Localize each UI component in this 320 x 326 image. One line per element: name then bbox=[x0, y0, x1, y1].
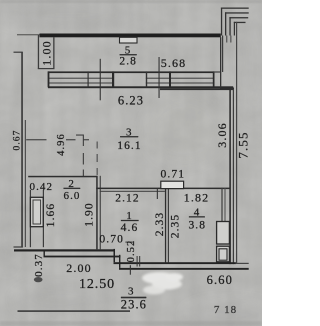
top exterior thick wall bbox=[40, 34, 221, 38]
bottom band A bottom line bbox=[44, 256, 121, 258]
svg-text:6.23: 6.23 bbox=[118, 94, 144, 108]
svg-text:0.70: 0.70 bbox=[99, 234, 124, 246]
duct box 2 bbox=[217, 246, 230, 262]
svg-text:0.37: 0.37 bbox=[33, 253, 45, 277]
room1 underline bbox=[121, 220, 139, 221]
svg-text:3.8: 3.8 bbox=[188, 220, 206, 232]
svg-text:12.50: 12.50 bbox=[79, 277, 115, 292]
window mullion 4 bbox=[169, 71, 171, 87]
window band bottom line bbox=[48, 86, 233, 88]
dim tick under room1 top wall bbox=[157, 189, 158, 199]
window mullion 1 bbox=[88, 71, 89, 87]
window mullion 3 bbox=[146, 71, 147, 87]
dim line 4.96 seg2 bbox=[66, 139, 76, 140]
room1 top wall line 2 bbox=[100, 191, 165, 192]
svg-text:1.00: 1.00 bbox=[40, 40, 54, 65]
left wall inner line bbox=[25, 120, 26, 247]
duct box 2 inner bbox=[219, 249, 227, 260]
svg-text:3: 3 bbox=[128, 285, 135, 297]
balcony top thin line bbox=[17, 34, 41, 35]
balcony right top line bbox=[213, 71, 221, 72]
svg-text:0.42: 0.42 bbox=[29, 181, 53, 193]
room4 underline bbox=[189, 216, 205, 217]
svg-text:2.00: 2.00 bbox=[66, 261, 91, 275]
balcony right corner vertical bbox=[220, 37, 221, 87]
svg-text:7.55: 7.55 bbox=[235, 131, 250, 158]
svg-text:2.8: 2.8 bbox=[119, 56, 137, 68]
room2 underline bbox=[64, 188, 81, 189]
svg-text:2.35: 2.35 bbox=[169, 214, 181, 239]
room2 left window frame verticals bbox=[30, 190, 31, 247]
dim tick 6.23 left bbox=[100, 59, 101, 101]
dim tick 5.68 left bbox=[159, 57, 160, 98]
svg-text:1.82: 1.82 bbox=[184, 191, 209, 205]
dim tick 0.52 top bbox=[125, 242, 132, 243]
svg-text:2.33: 2.33 bbox=[154, 212, 166, 237]
svg-text:23.6: 23.6 bbox=[121, 298, 147, 312]
svg-text:16.1: 16.1 bbox=[117, 140, 142, 152]
left wall outer line bbox=[21, 52, 23, 247]
svg-text:2.12: 2.12 bbox=[115, 193, 140, 205]
room2 window outer rect bbox=[30, 197, 43, 226]
room4 right inner wall a bbox=[221, 188, 222, 223]
shaft inner vertical a bbox=[222, 36, 223, 73]
balcony window band top line bbox=[48, 71, 214, 73]
svg-text:5.68: 5.68 bbox=[161, 56, 186, 70]
bottom band B bottom line bbox=[119, 268, 249, 270]
dashed vertical x97 dash1 bbox=[97, 142, 98, 149]
room2 window inner rect bbox=[33, 200, 41, 224]
shaft inner vertical b bbox=[226, 36, 227, 43]
room2 top wall bbox=[28, 176, 97, 178]
room5 underline bbox=[120, 54, 137, 55]
outer boundary right vertical bbox=[236, 22, 237, 264]
balcony left vertical 2 bbox=[53, 37, 54, 68]
dim tick 2.00 end bbox=[130, 265, 131, 275]
svg-text:4.96: 4.96 bbox=[56, 133, 67, 156]
rooms1-4 divider outer bbox=[165, 188, 166, 263]
room1 top wall line 1 bbox=[96, 188, 230, 190]
dim line 4.96 seg1 bbox=[26, 139, 46, 140]
window band right bottom thickening bbox=[160, 88, 234, 90]
dashed corner horiz bbox=[76, 135, 84, 136]
bottom band A top line bbox=[14, 249, 115, 251]
window band left end bbox=[48, 71, 50, 87]
svg-text:1.90: 1.90 bbox=[83, 202, 95, 227]
window mullion 2 thick bbox=[112, 71, 114, 87]
dashed vertical x83 dash1 bbox=[83, 135, 84, 147]
bottom band B top line bbox=[114, 262, 236, 264]
dim tick at 149 bbox=[137, 256, 138, 267]
svg-text:0.67: 0.67 bbox=[13, 129, 23, 150]
window band mid line 2 (right part) bbox=[146, 83, 214, 84]
stair steps: L2 bbox=[225, 12, 249, 13]
svg-text:6.0: 6.0 bbox=[63, 190, 80, 202]
stair steps top right: L1 bbox=[221, 8, 249, 9]
svg-text:4.6: 4.6 bbox=[121, 222, 139, 234]
balcony left vertical 1 bbox=[38, 35, 39, 69]
stair steps: L3 bbox=[229, 17, 248, 18]
window band right end bbox=[213, 71, 215, 87]
room3 underline bbox=[120, 136, 138, 137]
svg-text:1.66: 1.66 bbox=[45, 203, 57, 228]
balcony left sill line bbox=[38, 68, 55, 69]
dashed vertical x83 dash3 bbox=[83, 170, 84, 177]
svg-text:6.60: 6.60 bbox=[207, 273, 233, 287]
duct box 1 bbox=[217, 222, 230, 245]
white box on room4 top wall bbox=[161, 181, 184, 188]
building right wall outer line bbox=[229, 89, 231, 265]
room2/room1 dividing wall inner bbox=[100, 176, 101, 250]
svg-text:3.06: 3.06 bbox=[215, 122, 229, 147]
jog outer vertical bbox=[114, 249, 116, 262]
dark ink blot bottom-left bbox=[34, 277, 43, 282]
left wall bottom hook bbox=[14, 246, 23, 247]
window band mid line 1 (right part) bbox=[146, 78, 214, 79]
window band mid line 1 (left part) bbox=[48, 78, 114, 79]
bottom edge shading bbox=[0, 321, 262, 326]
rooms1-4 divider inner bbox=[168, 188, 169, 263]
shaft inner vertical c bbox=[230, 36, 231, 43]
outer boundary bottom-right corner bbox=[236, 263, 249, 264]
svg-text:0.52: 0.52 bbox=[126, 240, 137, 263]
top edge shading bbox=[0, 0, 262, 3]
left wall top hook bbox=[14, 52, 23, 53]
svg-text:7 18: 7 18 bbox=[214, 304, 237, 316]
white-out blob bottom middle bbox=[142, 272, 183, 295]
building right wall inner line bbox=[233, 89, 234, 265]
window band mid line 2 (left part) bbox=[48, 83, 114, 84]
dashed vertical x97 dash2 bbox=[97, 154, 98, 162]
dashed vertical x97 dash3 bbox=[97, 168, 98, 175]
stair steps: L4 bbox=[234, 22, 246, 23]
bottom long line bbox=[18, 310, 131, 312]
bottom underline bbox=[121, 297, 146, 298]
room4 right inner wall b bbox=[225, 188, 226, 223]
vent box on top wall bbox=[120, 37, 138, 43]
room2/room1 dividing wall outer bbox=[96, 176, 98, 250]
right wall top connector bbox=[220, 88, 234, 89]
svg-text:0.71: 0.71 bbox=[161, 169, 186, 181]
dashed vertical x83 dash2 bbox=[83, 153, 84, 165]
dim line 4.96 seg3 bbox=[84, 139, 90, 140]
jog inner vertical bbox=[119, 255, 120, 268]
